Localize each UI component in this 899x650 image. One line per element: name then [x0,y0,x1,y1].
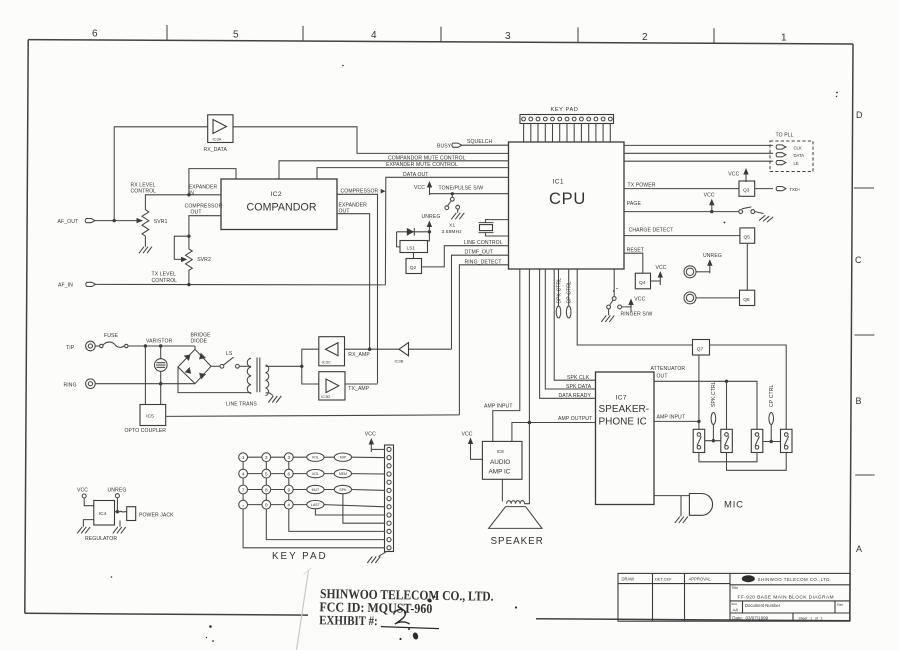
svg-text:6: 6 [92,29,98,40]
svg-text:OUT: OUT [657,374,668,380]
title block divider DET/APPROVAL [684,573,686,621]
analog switch SW2 [721,429,733,452]
svg-text:OUT: OUT [191,210,202,216]
border frame left [25,40,28,614]
wire TONE/PULSE S/W [430,193,509,195]
keypad matrix column wires [243,462,384,548]
row tick C|B [855,334,875,336]
svg-text:RING: RING [64,382,77,388]
svg-text:CONTROL: CONTROL [131,189,157,195]
svg-text:LINE CONTROL: LINE CONTROL [464,240,503,246]
FCC stamp text [319,586,494,630]
ruler tick 3|2 [577,27,579,42]
svg-text:CLK: CLK [794,145,802,150]
svg-text:7: 7 [242,487,245,492]
switch RINGER S/W [607,269,631,315]
svg-text:TX POWER: TX POWER [628,183,656,189]
svg-text:KEY PAD: KEY PAD [551,107,579,113]
svg-text:LINE TRANS: LINE TRANS [226,402,257,408]
charge jack lower [684,292,696,304]
wire EXPANDER OUT of IC2 [337,214,370,350]
svg-text:Sheet 1 of 1: Sheet 1 of 1 [799,616,823,620]
wire COMPRESSOR OUT [189,216,221,237]
svg-text:TONE/PULSE S/W: TONE/PULSE S/W [439,186,484,192]
svg-text:LE: LE [794,161,799,166]
wire AF_OUT to SVR1 [96,220,137,222]
svg-text:1: 1 [781,33,787,44]
svg-text:ATTENUATOR: ATTENUATOR [651,366,686,372]
phone jack RING [86,379,96,389]
opto coupler IC5 box [125,346,167,434]
svg-text:SPK: SPK [339,488,347,492]
svg-text:Q8: Q8 [743,297,750,303]
svg-text:Q4: Q4 [639,280,646,286]
transistor Q2 box [406,253,422,274]
crystal X1 [442,220,509,236]
keypad matrix keys [239,453,293,509]
svg-text:MEM: MEM [339,472,347,476]
ground at page switch [759,214,773,223]
svg-text:CP CTRL: CP CTRL [769,385,775,407]
power VCC above Q3 [743,168,748,182]
title block row line logo [730,584,850,586]
border frame bottom left segment [25,613,308,615]
junction tip/varistor [159,344,162,347]
wire RING_DETECT [459,265,508,415]
wire transformer to amps [302,349,319,384]
svg-text:TX LEVEL: TX LEVEL [152,272,177,278]
wire RING line [95,383,195,385]
wire EXPANDER MUTE CONTROL [317,168,509,179]
ruler tick 4|3 [440,27,442,42]
junction attenuator/SW2 [725,380,728,383]
border frame top [28,40,853,44]
svg-text:VCC: VCC [656,265,667,271]
keypad function keys column 4 [307,453,324,509]
resistor stub SPK CTRL at CPU [558,269,560,306]
svg-text:AMP INPUT: AMP INPUT [657,415,686,421]
svg-text:FUSE: FUSE [104,333,118,339]
svg-text:PHONE IC: PHONE IC [599,417,647,428]
company logo oval [742,575,755,582]
wire SPK CLK [554,269,595,380]
svg-text:RESET: RESET [627,247,644,253]
svg-text:CP CTRL: CP CTRL [567,281,573,303]
svg-text:TO PLL: TO PLL [776,133,794,139]
wire AF_IN line [96,283,385,286]
svg-text:SHINWOO TELECOM CO.,LTD.: SHINWOO TELECOM CO.,LTD. [758,577,832,582]
switch tone/pulse contacts [445,195,460,213]
svg-text:OPTO COUPLER: OPTO COUPLER [125,428,167,434]
wire COMPRESSOR out of IC2 [337,194,378,383]
power VCC at IC8 [468,438,473,452]
ground under keypad connector [379,552,387,557]
svg-text:AMP OUTPUT: AMP OUTPUT [558,416,592,422]
wire COMPANDOR MUTE CONTROL [279,161,509,179]
svg-text:B: B [856,396,862,406]
svg-text:RING_DETECT: RING_DETECT [465,259,502,265]
wire AMP INPUT right [654,420,699,422]
ruler tick 5|4 [302,26,304,41]
exhibit underline [381,627,439,629]
power VCC at Q4 [651,280,661,282]
wire ATTENUATOR OUT [654,381,757,429]
svg-text:VOL: VOL [312,472,319,476]
svg-text:Q5: Q5 [744,235,751,241]
title block row line docnum [730,612,850,614]
border frame right [850,44,853,621]
wire EXPANDER IN [145,169,236,210]
svg-text:DRAW: DRAW [622,577,635,582]
svg-text:SVR2: SVR2 [197,257,211,263]
arrowhead compressor [381,189,386,194]
svg-text:IC5: IC5 [146,413,154,419]
svg-text:IC2: IC2 [271,191,282,198]
svg-text:3: 3 [505,31,511,42]
junction unreg/diode [428,230,431,233]
svg-text:IC3A: IC3A [213,137,222,142]
wire LE [624,160,773,162]
amplifier IC3C box (RX) [319,337,345,366]
node AF_OUT [85,219,95,223]
analog switch SW1 [693,429,705,452]
svg-text:Q3: Q3 [743,188,750,194]
fuse F1 [95,342,195,348]
svg-text:REGULATOR: REGULATOR [85,536,117,542]
title block outer box [618,573,850,621]
wire SPK DATA [545,269,595,389]
keypad header wires to CPU [524,124,611,143]
svg-text:VCC: VCC [77,488,88,494]
svg-text:VCC: VCC [728,171,739,177]
wire IC5 to RING_DETECT [166,415,460,417]
phone jack TIP [86,341,96,351]
svg-text:IN: IN [189,191,195,197]
svg-text:9: 9 [288,487,291,492]
potentiometer SVR2 [174,236,189,259]
wire CLK [624,144,773,146]
svg-text:COMPRESSOR: COMPRESSOR [185,203,223,209]
wire CPU to speaker right terminal [524,269,529,504]
svg-text:M/P: M/P [340,456,347,460]
title block size cell divider [742,601,744,613]
border frame bottom right segment [536,619,850,621]
svg-text:Q2: Q2 [410,265,417,271]
svg-text:TX_AMP: TX_AMP [348,386,369,392]
wire Q5 to Q8 [746,243,748,290]
svg-text:IC4: IC4 [99,511,107,517]
ruler tick 2|1 [713,28,715,43]
svg-text:CHARGE DETECT: CHARGE DETECT [629,227,674,233]
svg-text:*: * [242,504,244,509]
resistor stub CP CTRL at CPU [568,269,570,306]
title block divider APPROVAL/right [729,573,731,621]
svg-text:RX_DATA: RX_DATA [204,147,228,153]
wire SW1 to SW3 bottom [699,453,757,462]
analog switch SW4 [781,429,793,452]
transistor Q3 box [739,181,755,196]
potentiometer SVR1 [142,210,149,247]
wire CHARGE DETECT [624,235,740,237]
svg-text:Q7: Q7 [697,346,704,352]
svg-text:TXD+: TXD+ [790,187,801,192]
junction tone/pulse [451,192,454,195]
svg-text:SPK CTRL: SPK CTRL [556,278,562,304]
relay LS1 box [397,232,428,253]
svg-text:SQUELCH: SQUELCH [467,139,493,145]
svg-text:8: 8 [265,487,268,492]
svg-text:UNREG: UNREG [703,253,722,259]
power UNREG at charge jack [696,271,710,273]
wire diode net [397,232,430,241]
svg-text:LAST: LAST [311,503,321,507]
keypad function keys column 5 [334,453,351,494]
svg-text:A: A [856,544,862,554]
svg-text:2: 2 [265,455,268,460]
junction on AF_OUT line [113,219,116,222]
power jack J1 [127,507,136,521]
wire TX line IC3D [345,383,378,385]
title block rev cell divider [834,601,836,613]
junction tip/IC5 [144,344,147,347]
keypad header pins [522,117,613,121]
svg-text:SVR1: SVR1 [154,219,168,225]
varistor [155,346,168,384]
wire RX line IC3C to IC3B [345,348,400,350]
svg-text:MIC: MIC [724,500,744,511]
svg-text:IC7: IC7 [616,395,627,402]
title block header underline [618,583,730,585]
ground under tone/pulse switch [451,213,464,220]
svg-text:#: # [288,502,291,507]
svg-text:KEY PAD: KEY PAD [272,551,328,562]
CPU IC1 box [509,142,625,269]
wire AMP INPUT to IC8 [493,269,520,441]
svg-text:DIODE: DIODE [191,338,208,344]
microphone MIC [654,495,689,497]
ruler tick 6|5 [166,25,168,40]
wire LINE CONTROL [422,246,509,267]
svg-text:MUT: MUT [312,488,320,492]
svg-text:6: 6 [288,471,291,476]
svg-text:AF_OUT: AF_OUT [58,219,79,225]
svg-text:POWER JACK: POWER JACK [139,513,174,519]
charge jack upper [684,266,696,278]
svg-text:SPK DATA: SPK DATA [566,384,592,390]
svg-text:AF_IN: AF_IN [58,282,73,288]
row tick B|A [855,474,874,476]
svg-text:COMPRESSOR: COMPRESSOR [341,189,379,195]
row tick D|C [854,187,874,189]
power VCC at keypad connector [369,438,374,452]
svg-text:APPROVAL: APPROVAL [689,577,712,582]
amplifier IC3B [395,343,409,364]
wire DATA OUT (to AF_IN net) [385,177,508,285]
svg-text:5: 5 [233,29,239,40]
svg-text:DATA READY: DATA READY [559,393,592,399]
power UNREG arrow near LS1 [427,221,432,235]
audio amp IC8 box [482,441,522,479]
transistor Q8 box [740,290,755,305]
wire RESET to Q4 [624,253,643,273]
svg-text:Size: Size [731,602,737,606]
svg-text:SPEAKER-: SPEAKER- [599,404,650,415]
svg-text:3.58MHz: 3.58MHz [442,229,463,235]
overlay sheet left edge [297,571,309,650]
bridge diode BD1 [178,346,211,384]
keypad header connector above CPU [520,107,614,123]
svg-text:Title: Title [732,586,739,590]
transformer LINE TRANS [178,358,302,396]
svg-text:BUSY: BUSY [437,144,452,150]
svg-text:SPK CTRL: SPK CTRL [711,381,717,407]
TO PLL connector group [770,133,813,172]
overlay sheet corner cut [304,568,312,575]
svg-text:DATA OUT: DATA OUT [403,172,429,178]
title block row line title [730,600,850,602]
svg-text:CONTROL: CONTROL [152,278,178,284]
wire DATA READY [540,269,596,398]
wire CPU to Q7 [577,269,692,345]
svg-text:EXHIBIT #:: EXHIBIT #: [319,612,378,628]
keypad connector strip [385,445,394,552]
junction page/vcc [710,210,713,213]
svg-text:IC8: IC8 [497,449,504,454]
ground IC4 left [83,520,93,527]
svg-text:IC3C: IC3C [322,360,331,365]
node BUSY connector [452,143,462,147]
wire lower jack to Q8 [696,297,740,299]
switch page [739,207,764,214]
svg-text:AMP INPUT: AMP INPUT [484,404,513,410]
speaker SP1 [489,479,542,528]
wire PAGE [624,211,739,213]
svg-text:VOL: VOL [312,456,319,460]
wire DATA [624,152,773,154]
svg-text:COMPANDOR MUTE CONTROL: COMPANDOR MUTE CONTROL [388,155,466,161]
svg-text:4: 4 [242,471,245,476]
svg-text:DET.CEF: DET.CEF [655,576,672,581]
svg-text:VCC: VCC [365,432,376,438]
ink speck cluster [111,65,838,642]
wire TX POWER [624,188,739,190]
speakerphone IC7 box [596,372,655,505]
svg-text:OUT: OUT [339,209,350,215]
svg-text:SW: SW [744,577,749,581]
transistor Q4 box [635,273,650,289]
svg-text:Document Number: Document Number [745,603,781,608]
svg-text:1: 1 [242,455,245,460]
svg-text:DATA: DATA [794,153,805,158]
svg-text:C: C [855,255,862,265]
svg-text:COMPANDOR: COMPANDOR [247,202,317,214]
analog switch SW3 [751,429,763,452]
wire RX_DATA to CPU [233,127,509,154]
wire DTMF_OUT [452,255,509,349]
svg-text:VCC: VCC [634,296,645,302]
svg-text:EXPANDER MUTE CONTROL: EXPANDER MUTE CONTROL [386,162,458,168]
svg-text:0: 0 [265,502,268,507]
svg-text:2: 2 [642,32,648,43]
handwritten exhibit number 2 [394,609,410,624]
junction compressor out [187,235,190,238]
svg-text:IC1: IC1 [553,179,564,186]
svg-text:A4: A4 [733,607,739,612]
svg-text:RINGER S/W: RINGER S/W [621,312,653,318]
svg-text:VCC: VCC [414,185,425,191]
svg-text:X1: X1 [449,222,455,228]
svg-text:IC3B: IC3B [395,359,404,364]
svg-text:EXPANDER: EXPANDER [339,202,368,208]
svg-text:AMP IC: AMP IC [489,468,511,475]
wire AMP OUTPUT IC7 to IC8 [512,423,596,442]
svg-text:RX LEVEL: RX LEVEL [131,182,156,188]
svg-text:3: 3 [288,455,291,460]
wire IC3B to DTMF vertical [409,348,452,350]
svg-text:AUDIO: AUDIO [490,459,510,466]
switch LS [211,357,251,368]
svg-text:VARISTOR: VARISTOR [146,339,173,345]
svg-text:VCC: VCC [462,432,473,438]
ground IC4 right [119,521,121,527]
diode near LS1 [407,228,414,236]
title block divider DRAW/DET [652,573,654,621]
wire SQUELCH [462,144,509,146]
amplifier IC3D box (TX) [319,372,345,400]
wire IC3A input from AF_OUT node [114,127,208,221]
node TXD+ [755,188,773,190]
ground at transformer [268,396,281,403]
keypad matrix row wires [248,457,385,507]
node AF_IN [86,282,96,286]
svg-text:IC3D: IC3D [321,394,330,399]
wire Q7 to switches [698,355,700,429]
svg-text:UNREG: UNREG [108,488,127,494]
ground under SVR1 [139,247,152,254]
svg-text:FF-920 BASE MAIN BLOCK DIAGRAM: FF-920 BASE MAIN BLOCK DIAGRAM [738,594,834,600]
svg-text:RX_AMP: RX_AMP [348,352,370,358]
junction amp output / speaker line [528,421,532,425]
transistor Q5 box [740,228,755,243]
svg-text:SPK CLK: SPK CLK [567,375,590,381]
title block sheet cell divider [792,613,794,621]
svg-text:4: 4 [371,30,377,41]
svg-text:PAGE: PAGE [627,201,642,207]
svg-text:TIP: TIP [66,345,75,351]
svg-text:Rev: Rev [837,603,843,607]
svg-text:D: D [856,110,863,120]
svg-text:VCC: VCC [704,192,715,198]
junction IC4 out [116,510,119,513]
svg-text:LS1: LS1 [407,245,416,251]
svg-text:EXPANDER: EXPANDER [189,184,218,190]
svg-text:LS: LS [226,351,233,357]
svg-text:DTMF_OUT: DTMF_OUT [465,250,494,256]
svg-text:UNREG: UNREG [422,214,441,220]
svg-text:SPEAKER: SPEAKER [491,536,544,547]
compandor IC2 box [221,179,337,230]
wire SW2 to SW4 bottom [727,453,787,471]
svg-text:CPU: CPU [549,190,586,208]
amplifier IC3A box [204,115,234,153]
power VCC arrow at tone/pulse [427,181,432,195]
svg-text:5: 5 [265,471,268,476]
transistor Q7 box [693,340,710,356]
svg-text:Date: 03/07/1999: Date: 03/07/1999 [732,616,768,621]
